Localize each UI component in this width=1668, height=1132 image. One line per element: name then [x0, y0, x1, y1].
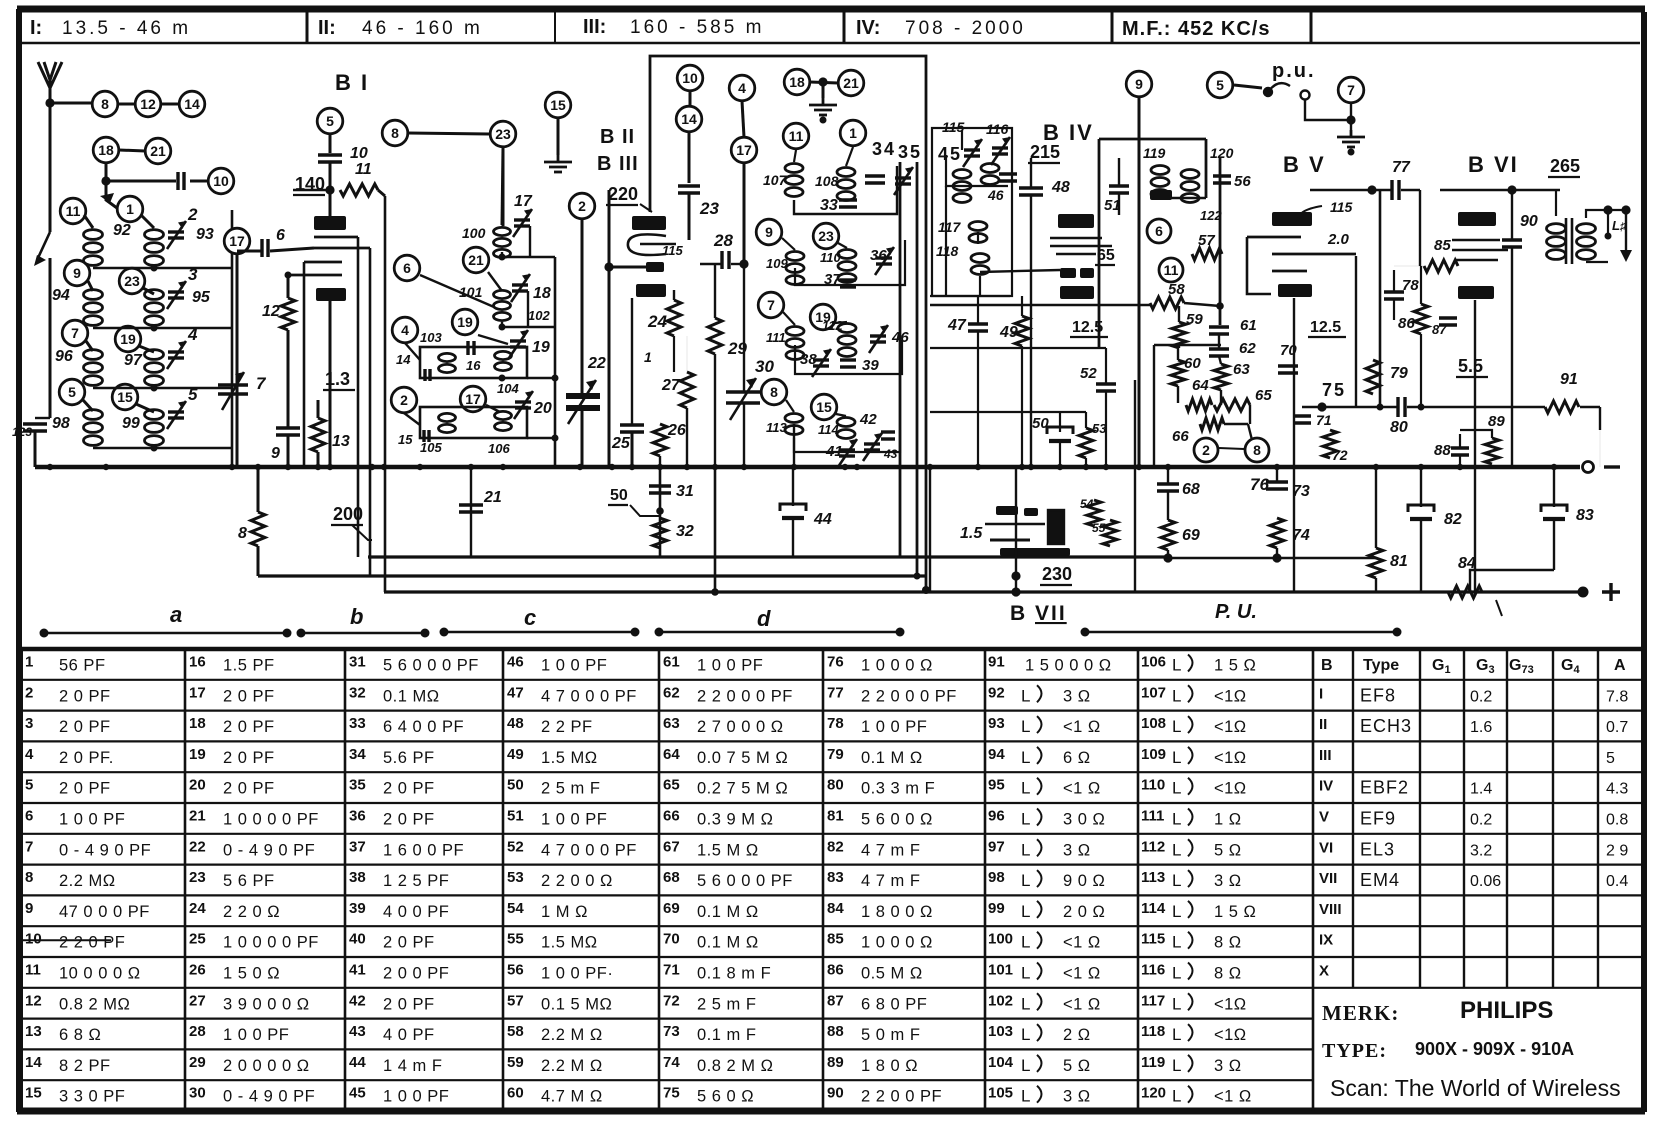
junction: [381, 464, 387, 470]
svg-text:28: 28: [189, 1023, 206, 1040]
svg-text:4: 4: [25, 746, 34, 763]
junction: [604, 262, 613, 271]
svg-text:75: 75: [663, 1085, 680, 1102]
svg-text:6: 6: [25, 808, 33, 825]
junction: [739, 259, 748, 268]
svg-text:6 8 Ω: 6 8 Ω: [59, 1026, 101, 1044]
IF box bottom: [930, 295, 1010, 297]
svg-text:11: 11: [25, 962, 41, 979]
svg-text:Type: Type: [1363, 657, 1399, 674]
svg-text:92: 92: [113, 222, 131, 239]
contact 14: [179, 91, 205, 117]
svg-text:1 6 0 0 PF: 1 6 0 0 PF: [383, 841, 464, 859]
wire: [1248, 424, 1252, 440]
svg-text:15: 15: [550, 97, 566, 113]
capacitor 78: [1384, 292, 1404, 299]
junction: [421, 629, 430, 638]
svg-text:2 2 0 Ω: 2 2 0 Ω: [223, 903, 280, 921]
svg-text:23: 23: [699, 199, 719, 218]
wire 69 to 81: [1168, 557, 1376, 559]
svg-text:70: 70: [663, 931, 680, 948]
svg-text:L: L: [1172, 810, 1181, 829]
svg-text:708 - 2000: 708 - 2000: [905, 18, 1026, 39]
wire: [700, 263, 722, 265]
junction: [1551, 464, 1557, 470]
series arrow mark: [100, 193, 114, 203]
ground P.U.: [1337, 130, 1365, 147]
svg-text:1 0 0 PF: 1 0 0 PF: [383, 1088, 449, 1106]
wire grid rail down: [369, 248, 372, 576]
svg-text:L: L: [1172, 1087, 1181, 1106]
wire: [35, 417, 50, 419]
contact 4: [392, 317, 418, 343]
svg-text:33: 33: [349, 715, 366, 732]
contact 7: [62, 320, 88, 346]
svg-text:17: 17: [736, 142, 752, 158]
trimmer capacitor: [963, 139, 982, 167]
svg-text:45: 45: [938, 144, 962, 164]
tube B I grid lines: [288, 237, 370, 275]
wire: [501, 252, 503, 257]
svg-text:L: L: [1172, 994, 1181, 1013]
junction: [657, 464, 663, 470]
junction: [914, 573, 921, 580]
svg-text:4.3: 4.3: [1606, 781, 1628, 798]
svg-text:83: 83: [1576, 507, 1594, 524]
contact 18: [784, 69, 810, 95]
svg-text:76: 76: [827, 654, 844, 671]
resistor 72: [1323, 430, 1337, 458]
svg-text:69: 69: [1182, 527, 1200, 544]
svg-text:Scan: The World of Wireless: Scan: The World of Wireless: [1330, 1075, 1621, 1101]
svg-text:90: 90: [827, 1085, 844, 1102]
svg-text:5: 5: [1606, 750, 1615, 767]
wire: [1178, 345, 1180, 348]
svg-text:2: 2: [187, 205, 198, 224]
svg-text:L: L: [1021, 748, 1030, 767]
junction: [499, 254, 506, 261]
svg-text:85: 85: [1434, 237, 1451, 254]
svg-text:d: d: [757, 606, 771, 631]
contact 11: [783, 123, 809, 149]
svg-text:7: 7: [71, 325, 79, 341]
trimmer capacitor 2: [167, 221, 186, 249]
svg-text:6 4 0 0 PF: 6 4 0 0 PF: [383, 718, 464, 736]
P.U. jack: [1264, 83, 1310, 99]
svg-text:29: 29: [189, 1054, 206, 1071]
wire: [792, 467, 794, 506]
wire to heater rail: [1015, 467, 1017, 592]
svg-text:123: 123: [12, 425, 32, 439]
wire: [154, 387, 232, 389]
wire: [287, 435, 290, 467]
junction: [499, 324, 506, 331]
coil 93: [145, 230, 164, 266]
svg-text:46: 46: [987, 187, 1004, 203]
coil: [1577, 224, 1596, 260]
coil 106: [495, 411, 512, 430]
capacitor 77: [1392, 180, 1399, 200]
resistor 32: [653, 518, 667, 548]
capacitor: [23, 424, 47, 431]
svg-text:3 Ω: 3 Ω: [1214, 1057, 1242, 1075]
svg-text:110: 110: [820, 250, 841, 265]
svg-text:18: 18: [789, 74, 805, 90]
resistor 49: [1015, 316, 1029, 346]
wire cap to grid: [329, 162, 332, 218]
svg-text:5 0 m F: 5 0 m F: [861, 1026, 920, 1044]
svg-text:22: 22: [587, 355, 606, 372]
capacitor 52: [1096, 384, 1116, 391]
svg-text:99: 99: [988, 900, 1005, 917]
svg-text:<1 Ω: <1 Ω: [1063, 780, 1101, 798]
contact 14: [676, 106, 702, 132]
wire row3 bottom: [527, 377, 555, 380]
tube electrode bar: [314, 216, 346, 230]
header divider I/II: [306, 12, 309, 43]
svg-text:1 0 0 PF: 1 0 0 PF: [541, 811, 607, 829]
svg-text:1: 1: [126, 201, 134, 217]
label 12.5 V right: [1308, 319, 1346, 337]
svg-text:94: 94: [988, 746, 1005, 763]
wire 23 down: [502, 148, 505, 226]
capacitor 62: [1209, 349, 1229, 356]
svg-text:89: 89: [827, 1054, 844, 1071]
coil 111: [786, 327, 804, 360]
svg-text:32: 32: [349, 684, 366, 701]
wire: [659, 456, 661, 467]
wire: [1599, 407, 1601, 430]
svg-text:76: 76: [1250, 475, 1269, 494]
svg-text:IV: IV: [1319, 778, 1333, 795]
contact 15: [112, 384, 138, 410]
contact 8: [382, 120, 408, 146]
junction: [1418, 404, 1425, 411]
svg-text:11: 11: [66, 203, 81, 219]
svg-text:34: 34: [872, 139, 896, 159]
svg-text:62: 62: [1239, 340, 1256, 357]
wire: [630, 505, 660, 516]
svg-text:M.F.: 452 KC/s: M.F.: 452 KC/s: [1122, 18, 1270, 40]
svg-text:5: 5: [68, 384, 76, 400]
wire 23 to coil 110: [838, 243, 847, 248]
svg-text:59: 59: [507, 1054, 524, 1071]
coil bottom wire: [93, 387, 154, 389]
svg-text:L: L: [1021, 717, 1030, 736]
svg-text:0.4: 0.4: [1606, 873, 1628, 890]
junction: [1011, 571, 1020, 580]
wire: [1030, 158, 1032, 188]
svg-text:0.0 7 5 M Ω: 0.0 7 5 M Ω: [697, 749, 788, 767]
svg-text:7: 7: [1347, 82, 1355, 98]
wire: [1059, 441, 1061, 467]
svg-text:5 Ω: 5 Ω: [1063, 1057, 1091, 1075]
svg-text:19: 19: [457, 314, 473, 330]
resistor 58: [1150, 297, 1184, 309]
contact 23: [119, 268, 145, 294]
header divider IV/MF: [1111, 12, 1114, 43]
svg-text:23: 23: [124, 273, 140, 289]
junction: [1418, 464, 1424, 470]
svg-text:19: 19: [120, 331, 136, 347]
wire 18-21: [119, 150, 145, 151]
coil 104a: [495, 351, 512, 370]
label 200 V: [331, 504, 363, 525]
svg-text:14: 14: [25, 1054, 42, 1071]
junction: [255, 464, 261, 470]
capacitor: [722, 251, 729, 269]
svg-text:90: 90: [1520, 213, 1538, 230]
svg-text:78: 78: [1402, 277, 1419, 294]
wire cap 56 vertical: [1219, 157, 1222, 254]
svg-text:109: 109: [1141, 746, 1166, 763]
svg-text:2.0: 2.0: [1327, 231, 1350, 248]
wire BV anode line down: [1379, 190, 1382, 407]
trimmer capacitor 4: [167, 341, 186, 369]
svg-text:30: 30: [755, 357, 774, 376]
wire: [1555, 190, 1557, 216]
svg-text:L: L: [1021, 902, 1030, 921]
switch arm arrow: [34, 232, 50, 266]
long vertical wire x900: [899, 162, 902, 557]
svg-text:L: L: [1021, 871, 1030, 890]
resistor 55: [1103, 520, 1117, 546]
coil 117: [969, 222, 987, 243]
wire: [794, 166, 897, 214]
resistor 64: [1186, 399, 1212, 411]
contact 21: [838, 70, 864, 96]
svg-text:120: 120: [1141, 1085, 1166, 1102]
tube electrode bar: [1060, 268, 1076, 278]
svg-text:2: 2: [400, 392, 408, 408]
wire 17 to coil 106: [486, 405, 500, 412]
coil 92: [84, 230, 103, 266]
svg-text:15: 15: [117, 389, 133, 405]
junction: [820, 117, 827, 124]
svg-text:7: 7: [25, 838, 33, 855]
svg-text:72: 72: [663, 992, 680, 1009]
junction: [1348, 149, 1355, 156]
capacitor 83: [1541, 505, 1567, 519]
bracket P.U.: [1085, 631, 1397, 634]
svg-text:0.1 M Ω: 0.1 M Ω: [697, 903, 759, 921]
wire: [257, 467, 260, 512]
wire: [640, 204, 652, 212]
svg-text:23: 23: [818, 228, 834, 244]
wire: [368, 555, 1168, 558]
svg-text:2 0 Ω: 2 0 Ω: [1063, 903, 1105, 921]
svg-text:0 - 4 9 0 PF: 0 - 4 9 0 PF: [59, 841, 151, 859]
svg-text:L: L: [1172, 964, 1181, 983]
contact 8 right: [1245, 438, 1269, 462]
wire 1 to coil 93: [141, 215, 154, 228]
header divider II/III: [554, 12, 556, 43]
svg-text:10: 10: [213, 173, 229, 189]
wire: [929, 467, 931, 592]
label 220 V: [606, 184, 638, 205]
svg-text:52: 52: [507, 838, 524, 855]
label 5.5 V: [1456, 356, 1488, 377]
svg-text:3 Ω: 3 Ω: [1063, 1088, 1091, 1106]
svg-text:<1Ω: <1Ω: [1214, 1026, 1247, 1044]
coil 100: [494, 227, 511, 257]
tube electrode bar: [1458, 286, 1494, 299]
svg-text:MERK:: MERK:: [1322, 1001, 1399, 1025]
wire 123 to bus: [34, 431, 37, 467]
coil 101: [494, 290, 511, 320]
bracket d: [659, 631, 900, 634]
wire to capacitor C1: [106, 180, 176, 183]
svg-text:15: 15: [816, 399, 832, 415]
svg-text:12.5: 12.5: [1310, 319, 1341, 336]
svg-text:88: 88: [1434, 442, 1451, 459]
wire 11 to coil 92: [84, 215, 93, 228]
capacitor 47: [968, 324, 988, 331]
svg-text:27: 27: [189, 992, 206, 1009]
svg-text:11: 11: [789, 128, 804, 144]
svg-text:III:: III:: [583, 16, 606, 38]
svg-text:75: 75: [1322, 380, 1346, 400]
coil bottom wire: [93, 327, 154, 329]
svg-text:30: 30: [189, 1085, 206, 1102]
resistor 85: [1424, 260, 1458, 272]
wire left drop: [1153, 345, 1155, 467]
svg-text:0.3 9 M Ω: 0.3 9 M Ω: [697, 811, 773, 829]
svg-text:10: 10: [682, 70, 698, 86]
tube electrode bar: [1058, 214, 1094, 228]
svg-text:22: 22: [189, 838, 206, 855]
contact 1: [117, 196, 143, 222]
wire 30 top: [743, 264, 745, 392]
svg-text:8: 8: [1253, 442, 1261, 458]
wire 83 to plus: [1470, 570, 1554, 592]
wire: [945, 186, 947, 296]
capacitor 68: [1157, 484, 1179, 491]
svg-text:115: 115: [1330, 199, 1353, 215]
svg-text:2 5 m F: 2 5 m F: [697, 995, 756, 1013]
junction: [842, 464, 848, 470]
svg-text:<1 Ω: <1 Ω: [1063, 934, 1101, 952]
svg-text:21: 21: [150, 143, 166, 159]
wire: [190, 180, 207, 183]
svg-text:5 Ω: 5 Ω: [1214, 841, 1242, 859]
junction: [47, 464, 53, 470]
svg-text:5: 5: [25, 777, 33, 794]
trimmer capacitor: [894, 167, 913, 195]
junction: [325, 185, 334, 194]
gang capacitor 7: [218, 372, 248, 410]
wire 2-8: [1219, 448, 1244, 449]
second horizontal: [930, 411, 1086, 413]
svg-text:L: L: [1172, 933, 1181, 952]
wire: [1375, 578, 1377, 592]
coil: [981, 164, 999, 185]
svg-text:5: 5: [1216, 77, 1224, 93]
capacitor 16: [468, 341, 474, 355]
svg-text:2 0 PF: 2 0 PF: [59, 780, 111, 798]
svg-text:39: 39: [862, 357, 879, 374]
svg-text:107: 107: [763, 172, 788, 188]
svg-text:71: 71: [1316, 412, 1332, 428]
svg-text:<1 Ω: <1 Ω: [1063, 718, 1101, 736]
svg-text:17: 17: [229, 233, 245, 249]
resistor 69: [1161, 520, 1175, 550]
svg-text:B: B: [1321, 657, 1333, 674]
wire: [1393, 299, 1395, 320]
svg-text:L: L: [1021, 779, 1030, 798]
svg-text:B II: B II: [600, 126, 635, 148]
wire grid return down: [303, 262, 306, 467]
contact 8: [761, 379, 787, 405]
svg-text:3: 3: [188, 265, 198, 284]
svg-text:4 7 0 0 0 PF: 4 7 0 0 0 PF: [541, 687, 637, 705]
svg-text:TYPE:: TYPE:: [1322, 1040, 1387, 1062]
junction: [1057, 464, 1063, 470]
svg-text:57: 57: [1198, 232, 1215, 249]
junction: [417, 464, 423, 470]
trimmer 17: [513, 209, 532, 237]
svg-text:4 7 m F: 4 7 m F: [861, 872, 920, 890]
wire: [293, 189, 330, 191]
capacitor 87: [1439, 318, 1457, 325]
resistor: [251, 512, 265, 546]
trimmer 41: [838, 439, 857, 467]
label 230 V: [1040, 564, 1072, 585]
svg-text:1 5 Ω: 1 5 Ω: [1214, 657, 1256, 675]
junction: [577, 464, 583, 470]
svg-text:6: 6: [403, 260, 411, 276]
svg-text:2 2 0 0 Ω: 2 2 0 0 Ω: [541, 872, 613, 890]
capacitor IF: [999, 174, 1017, 181]
svg-text:34: 34: [349, 746, 366, 763]
svg-text:0.3 3 m F: 0.3 3 m F: [861, 780, 935, 798]
coil 119: [1151, 166, 1169, 199]
wire: [1167, 550, 1169, 558]
svg-text:122: 122: [1200, 208, 1222, 223]
svg-text:0 - 4 9 0 PF: 0 - 4 9 0 PF: [223, 841, 315, 859]
svg-text:104: 104: [497, 381, 519, 396]
resistor 65b: [1214, 399, 1250, 411]
wire resistor 11 corner: [378, 190, 385, 196]
junction: [552, 435, 559, 442]
svg-text:X: X: [1319, 963, 1329, 980]
contact 9: [64, 260, 90, 286]
svg-text:84: 84: [827, 900, 844, 917]
svg-text:47: 47: [507, 684, 524, 701]
svg-text:86: 86: [827, 962, 844, 979]
svg-text:81: 81: [827, 808, 844, 825]
capacitor 10: [318, 155, 342, 162]
trimmer capacitor 5: [167, 401, 186, 429]
svg-text:II: II: [1319, 716, 1327, 733]
contact 7: [1338, 77, 1364, 103]
contact 18: [93, 137, 119, 163]
svg-text:31: 31: [676, 483, 694, 500]
wire: [1105, 348, 1107, 384]
svg-text:EF9: EF9: [1360, 809, 1396, 829]
junction: [552, 375, 559, 382]
svg-text:54: 54: [507, 900, 524, 917]
antenna: [38, 62, 62, 232]
wire anode rail down: [384, 196, 387, 592]
svg-text:32: 32: [676, 523, 694, 540]
svg-text:26: 26: [667, 422, 686, 439]
junction: [103, 464, 109, 470]
wire: [714, 354, 716, 467]
svg-text:108: 108: [1141, 715, 1166, 732]
wire: [1218, 334, 1220, 349]
wire node row: [1154, 344, 1221, 346]
